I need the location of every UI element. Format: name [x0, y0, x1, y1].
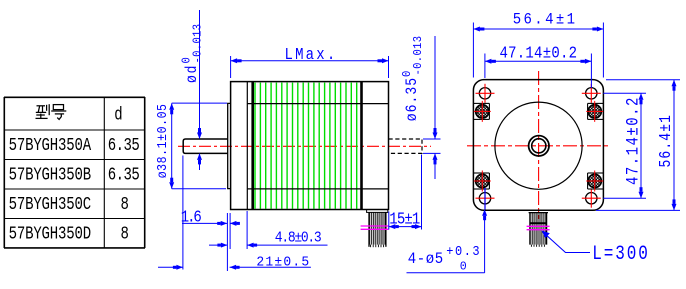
svg-text:57BYGH350C: 57BYGH350C — [9, 193, 92, 215]
svg-text:LMax.: LMax. — [285, 45, 338, 64]
svg-text:6.35: 6.35 — [108, 134, 139, 156]
svg-text:4.8±0.3: 4.8±0.3 — [275, 231, 322, 247]
svg-text:+0.3: +0.3 — [446, 244, 481, 260]
svg-text:57BYGH350D: 57BYGH350D — [9, 223, 92, 245]
svg-text:57BYGH350A: 57BYGH350A — [9, 134, 92, 156]
svg-text:56.4±1: 56.4±1 — [513, 10, 578, 29]
svg-text:8: 8 — [121, 193, 129, 215]
svg-text:56.4±1: 56.4±1 — [658, 114, 676, 168]
svg-text:4-ø5: 4-ø5 — [408, 251, 444, 268]
svg-text:d: d — [114, 104, 122, 125]
svg-text:15±1: 15±1 — [389, 210, 420, 230]
svg-text:21±0.5: 21±0.5 — [256, 255, 310, 270]
svg-text:47.14±0.2: 47.14±0.2 — [623, 96, 643, 185]
svg-text:-0.013: -0.013 — [413, 36, 426, 76]
svg-text:6.35: 6.35 — [108, 164, 139, 186]
svg-text:-0.013: -0.013 — [192, 24, 205, 64]
svg-text:47.14±0.2: 47.14±0.2 — [500, 44, 578, 63]
svg-text:8: 8 — [121, 223, 129, 245]
svg-text:1.6: 1.6 — [181, 207, 202, 227]
svg-text:ø38.1±0.05: ø38.1±0.05 — [154, 103, 170, 178]
svg-text:ød: ød — [184, 64, 201, 83]
svg-text:0: 0 — [460, 260, 467, 273]
svg-text:ø6.35: ø6.35 — [404, 77, 421, 121]
svg-text:L=300: L=300 — [592, 244, 650, 266]
svg-text:57BYGH350B: 57BYGH350B — [9, 164, 92, 186]
